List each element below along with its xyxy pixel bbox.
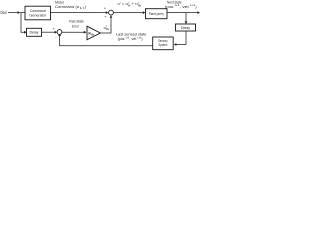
block Plant (arm)	[146, 9, 168, 19]
wire right Delay down and left into Sensory System	[176, 31, 186, 45]
wire bottom summing junction to gain triangle	[62, 31, 84, 33]
svg-text:Delay: Delay	[181, 26, 190, 30]
svg-text:, vel.: , vel.	[180, 4, 190, 9]
svg-text:+ u: + u	[132, 2, 138, 6]
wire Plant output to right edge	[167, 12, 198, 14]
wire left Delay to bottom summing junction	[42, 31, 55, 33]
label Next state (pos t+1, vel t+1)	[165, 0, 197, 9]
svg-text:Command: Command	[30, 9, 46, 13]
wire branch down to right Delay	[185, 13, 187, 22]
svg-text:= u: = u	[122, 2, 128, 6]
wire branch down from goal line to left Delay	[21, 13, 24, 33]
block Delay left	[27, 28, 42, 36]
wire Goal to junction with arrowhead	[8, 12, 18, 14]
node bottom summing junction	[57, 30, 62, 35]
svg-text:Goal: Goal	[0, 10, 6, 15]
label Motor Command (u 1:t)	[55, 0, 87, 10]
svg-text:(pos.: (pos.	[118, 36, 126, 41]
block Sensory System	[153, 37, 174, 50]
svg-text:System: System	[159, 43, 168, 47]
block Delay right	[176, 24, 196, 31]
wire top summing junction to Plant	[113, 12, 143, 14]
gain triangle K fb	[87, 26, 100, 40]
svg-text:Error: Error	[72, 24, 80, 29]
svg-text:Generator: Generator	[29, 14, 46, 18]
svg-text:Plant (arm): Plant (arm)	[149, 12, 164, 16]
label u t = u t ff + u t fb	[118, 1, 143, 7]
svg-text:Delay: Delay	[30, 31, 39, 35]
wire Sensory System output feedback to bottom summing junction	[60, 36, 153, 46]
label u t fb	[104, 25, 110, 31]
svg-text:(pos.: (pos.	[165, 4, 175, 9]
block Command Generator	[25, 6, 51, 20]
wire gain triangle output up to top summing junction	[100, 18, 111, 33]
wire junction to Command Generator	[20, 12, 25, 14]
svg-text:fb: fb	[91, 33, 94, 37]
label Last sensed state (pos t-d, vel t-d)	[116, 32, 147, 41]
svg-text:, vel.: , vel.	[129, 36, 137, 41]
svg-text:Command (u: Command (u	[55, 4, 79, 9]
wire Command Generator to top summing junction	[51, 12, 107, 14]
node top summing junction	[109, 10, 114, 15]
